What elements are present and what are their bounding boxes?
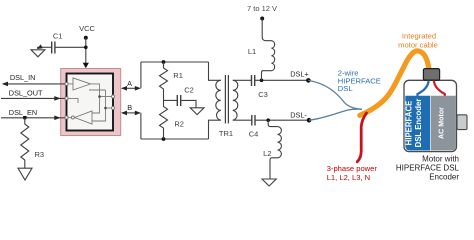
svg-text:TR1: TR1: [219, 129, 233, 138]
wire blue twisted pair bottom: [309, 109, 362, 120]
svg-text:DSL: DSL: [338, 84, 353, 93]
svg-text:C4: C4: [249, 129, 259, 138]
svg-text:C3: C3: [258, 90, 268, 99]
svg-text:DSL Encoder: DSL Encoder: [414, 99, 423, 148]
wire top rail: [141, 61, 209, 63]
svg-text:DSL_EN: DSL_EN: [9, 108, 37, 117]
svg-text:motor cable: motor cable: [398, 41, 438, 50]
HIPERFACE DSL encoder box: [405, 96, 430, 151]
svg-text:R1: R1: [173, 71, 183, 80]
ground near C2: [190, 108, 204, 115]
red motor wire: [434, 81, 445, 97]
label 2-wire HIPERFACE DSL: [338, 69, 381, 94]
capacitor C2: [164, 86, 197, 108]
svg-text:7 to 12 V: 7 to 12 V: [247, 4, 277, 13]
label 3-phase power: [327, 164, 378, 182]
capacitor C1: [52, 32, 63, 54]
resistor R1: [160, 62, 183, 100]
svg-text:L1: L1: [248, 47, 256, 56]
svg-text:VCC: VCC: [79, 24, 95, 33]
resistor R3: [21, 118, 44, 168]
wire C1 to VCC node: [55, 46, 86, 48]
svg-text:A: A: [127, 79, 132, 88]
ground below R3: [18, 168, 32, 180]
blue encoder wire: [418, 81, 429, 97]
wire blue twisted pair top: [308, 80, 362, 109]
svg-text:Integrated: Integrated: [402, 31, 436, 40]
label Motor with HIPERFACE DSL Encoder: [396, 154, 460, 181]
motor body: [404, 69, 467, 152]
svg-text:L2: L2: [263, 149, 271, 158]
node DSL+: [290, 69, 311, 82]
svg-text:DSL+: DSL+: [290, 69, 308, 78]
ground near C1: [31, 44, 52, 56]
svg-text:DSL_IN: DSL_IN: [10, 73, 36, 82]
node B wire: [121, 103, 141, 139]
svg-text:B: B: [127, 103, 132, 112]
capacitor C4: [249, 115, 309, 138]
node DSL-: [290, 110, 311, 122]
svg-text:C2: C2: [184, 86, 194, 95]
inductor L1: [247, 4, 277, 80]
ground below L2: [262, 179, 276, 186]
DSL_IN line: [2, 73, 67, 86]
svg-text:DSL-: DSL-: [290, 110, 307, 119]
svg-text:Motor with: Motor with: [422, 154, 459, 163]
DSL_EN line: [1, 108, 67, 120]
junction dot bottom rail: [162, 137, 166, 141]
resistor R2: [160, 100, 184, 139]
capacitor C3: [252, 75, 309, 99]
svg-text:Encoder: Encoder: [429, 172, 459, 181]
svg-text:C1: C1: [53, 32, 63, 41]
wire 3-phase power (red): [357, 113, 366, 162]
node A wire: [121, 62, 141, 91]
VCC supply: [79, 24, 95, 68]
svg-text:R3: R3: [35, 150, 45, 159]
transformer TR1: [209, 62, 252, 139]
pin squares and circles of U1: [65, 83, 114, 119]
svg-text:AC Motor: AC Motor: [438, 107, 446, 139]
svg-text:3-phase power: 3-phase power: [327, 164, 378, 173]
svg-text:R2: R2: [174, 119, 184, 128]
svg-text:L1, L2, L3, N: L1, L2, L3, N: [327, 173, 370, 182]
wire bottom rail: [141, 138, 209, 140]
DSL_OUT line: [1, 88, 67, 100]
svg-text:HIPERFACE: HIPERFACE: [404, 101, 413, 146]
junction dot top rail: [162, 60, 166, 64]
integrated motor cable (orange): [360, 51, 429, 116]
AC motor box: [431, 96, 456, 151]
inductor L2: [263, 120, 281, 179]
svg-text:DSL_OUT: DSL_OUT: [9, 88, 43, 97]
label Integrated motor cable: [398, 31, 438, 49]
IC U1 (HIPERFACE DSL transceiver, pink package): [61, 69, 121, 136]
